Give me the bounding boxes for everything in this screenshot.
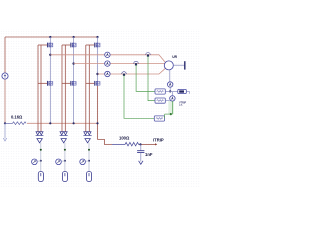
transistor Q4 row2 col1 — [48, 81, 53, 86]
op-amp U1 summer — [164, 61, 173, 70]
output probe bar — [184, 61, 186, 69]
stub from box U2 — [186, 91, 189, 93]
svg-text:100Ω: 100Ω — [119, 135, 130, 140]
node dot b2 b — [64, 160, 66, 162]
wire A4 down — [169, 87, 171, 91]
wire w2 — [74, 64, 165, 65]
wire col3 mid — [97, 48, 99, 81]
wire gate lead row1 col2 — [62, 44, 70, 46]
ground stub left — [4, 123, 6, 138]
pill load b3 — [87, 172, 92, 182]
transistor Q1 row1 col1 — [48, 42, 53, 47]
wire col3 drain — [97, 37, 99, 42]
triangle B1 — [37, 139, 42, 143]
wire summer output — [173, 64, 184, 66]
wire box3 right up — [164, 114, 166, 118]
wire cap bottom — [140, 153, 142, 162]
node dot col2 bottom rail — [73, 122, 75, 124]
wire gate lead row1 col3 — [86, 44, 95, 46]
wire gate vertical V2 col3 — [88, 45, 90, 132]
wire col2 source to rail — [73, 86, 75, 123]
node dot col3 rail — [96, 36, 98, 38]
node dot col1 bottom rail — [49, 122, 51, 124]
box R1 — [155, 89, 165, 94]
wire w3 — [98, 68, 166, 74]
box R3 — [154, 116, 164, 121]
wire summer to ammeter A4 — [169, 70, 171, 82]
pill load b1 — [38, 172, 43, 182]
wire branch2 down — [64, 143, 66, 172]
wire box2 to meter V2 — [165, 100, 170, 102]
svg-text:UR: UR — [172, 55, 177, 59]
node dot b1 a — [40, 149, 42, 151]
wire cap top — [140, 144, 142, 150]
wire col1 source to rail — [49, 86, 51, 123]
transistor Q2 row1 col2 — [71, 42, 76, 47]
node dot b3 b — [88, 160, 90, 162]
tap hump w2 — [134, 61, 139, 63]
svg-text:ITRIP: ITRIP — [153, 137, 164, 142]
node dot box1 line — [169, 90, 171, 92]
wire gate vertical V2 col1 — [40, 45, 42, 132]
wire gate lead row2 col2 — [62, 82, 70, 84]
source V1 — [2, 73, 8, 79]
node dot b2 a — [64, 149, 66, 151]
pill load b2 — [62, 172, 67, 182]
ammeter A4 — [168, 82, 173, 87]
wire col2 drain — [73, 37, 75, 42]
wire col2 mid — [73, 48, 75, 81]
wire col1 mid — [49, 48, 51, 81]
node dot b1 b — [40, 160, 42, 162]
green glow area — [168, 101, 174, 115]
wire to ITRIP — [141, 143, 157, 145]
ground arrow left — [3, 138, 7, 141]
wire left vertical — [4, 37, 6, 73]
node dot col3 bottom rail — [96, 122, 98, 124]
node dot col2 mid — [72, 62, 74, 64]
wire branch1 down — [40, 143, 42, 172]
wire col3 tap step — [98, 140, 113, 145]
wire gate vertical V1 col2 — [61, 45, 63, 132]
wire gate vertical V1 col1 — [37, 45, 39, 132]
green wire V2 down — [171, 101, 173, 114]
green wire g1 vertical — [136, 65, 155, 92]
triangle B3 — [85, 139, 90, 143]
svg-text:0.16Ω: 0.16Ω — [11, 115, 23, 120]
green wire g2 vertical — [148, 56, 155, 101]
wire left vertical lower — [4, 79, 6, 123]
wire col3 source down — [97, 86, 99, 140]
tri pair B1 — [36, 132, 39, 135]
node dot itrip — [139, 143, 141, 145]
transistor Q3 row1 col3 — [95, 42, 100, 47]
wire branch3 down — [88, 143, 90, 172]
wire gate lead row2 col1 — [38, 82, 47, 84]
resistor 100 ohm — [112, 142, 141, 146]
svg-text:1nF: 1nF — [145, 152, 153, 157]
wire top rail — [5, 36, 98, 38]
canvas grid — [0, 29, 200, 188]
wire gate lead row2 col3 — [86, 82, 95, 84]
capacitor C1 — [137, 151, 144, 153]
resistor R 0.16 — [5, 122, 26, 125]
tri pair B3 — [84, 132, 87, 135]
tap hump w3 — [122, 72, 127, 74]
probe circle b3 — [80, 159, 86, 165]
transistor Q5 row2 col2 — [71, 81, 76, 86]
box U2 dark — [178, 89, 187, 93]
ground arrow itrip — [139, 161, 143, 165]
transistor Q6 row2 col3 — [95, 81, 100, 86]
green wire link — [165, 113, 173, 115]
wire gate vertical V2 col2 — [64, 45, 66, 132]
node dot left rail — [4, 122, 6, 124]
node dot col2 rail — [73, 36, 75, 38]
wire V2 top — [171, 92, 173, 96]
wire box1 to box4 — [165, 90, 177, 92]
probe circle b1 — [32, 159, 38, 165]
wire gate lead row1 col1 — [38, 44, 47, 46]
tri pair B2 — [60, 132, 63, 135]
node dot b3 a — [88, 149, 90, 151]
wire col1 drain — [49, 37, 51, 42]
node dot col3 mid — [96, 73, 98, 75]
wire w1 — [50, 55, 165, 63]
triangle B2 — [61, 139, 66, 143]
meter V2 circle — [170, 96, 175, 101]
box R2 — [155, 98, 165, 103]
wire gate vertical V1 col3 — [85, 45, 87, 132]
node dot col1 rail — [49, 36, 51, 38]
ammeter A2 — [105, 61, 110, 66]
green node dot — [170, 113, 172, 115]
node dot col1 mid — [49, 54, 51, 56]
wire bottom rail — [27, 122, 98, 124]
tap hump w1 — [146, 52, 151, 54]
probe circle b2 — [56, 159, 62, 165]
green wire g3 vertical — [124, 75, 154, 119]
ammeter A1 — [105, 52, 110, 57]
ammeter A3 — [105, 71, 110, 76]
